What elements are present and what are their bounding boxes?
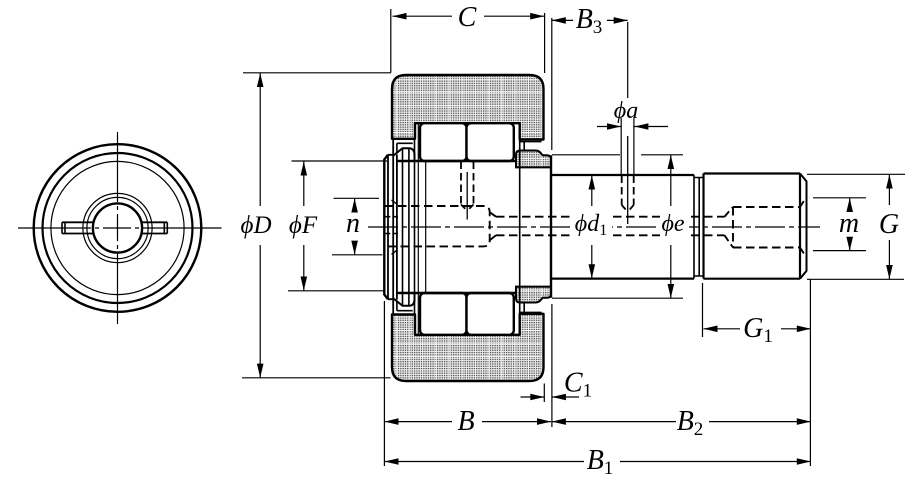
front view: outer ring inner edge circle [43, 153, 193, 303]
roller end face line left [417, 123, 419, 335]
svg-text:n: n [346, 208, 360, 239]
phi-F arrows [301, 162, 308, 176]
dim phi-e extension lines [552, 155, 683, 298]
front view: countersink outer circle [83, 193, 152, 262]
label background masks [571, 210, 689, 239]
svg-text:G: G [879, 209, 899, 240]
svg-text:B: B [457, 406, 474, 437]
dim phi-F extension lines [288, 161, 387, 291]
washer right face / phi-e hub face [550, 155, 552, 297]
roller chamfer line left [425, 161, 427, 293]
B arrows [385, 418, 399, 425]
radial hole centerline (center) [466, 172, 468, 220]
radial grease hole (right) hidden walls [622, 176, 634, 206]
m tapped hole hidden lines [733, 207, 800, 248]
dim phi-a extension lines [621, 118, 634, 174]
rib inner face line right [519, 123, 521, 335]
dim B1 line [385, 461, 811, 463]
dim G line [888, 175, 890, 280]
dim C1 arrow shafts [521, 396, 580, 398]
dim C1 extension lines [544, 304, 552, 402]
C1 arrows (outside pointing in) [530, 394, 544, 401]
front view: slot right end caps [164, 222, 167, 233]
dim G1 extension lines [703, 279, 811, 337]
outer ring section: top block [392, 75, 544, 140]
radial hole right cone [622, 205, 634, 212]
washer disc edge line a [402, 148, 404, 306]
front view: screwdriver slot bottom edge [62, 233, 167, 235]
front view: ring side recess circle [51, 161, 184, 294]
phi-a arrows (outside pointing in) [607, 123, 621, 130]
B1 arrows [385, 458, 399, 465]
flange top face [388, 155, 393, 299]
phi-e arrows [668, 155, 675, 169]
slot hidden lines (side view) [384, 217, 398, 234]
dim C line [393, 15, 545, 17]
thread end chamfer [800, 174, 807, 279]
dim m arrow shafts [849, 198, 851, 251]
svg-text:ϕF: ϕF [289, 212, 318, 239]
phi-d1 arrows [589, 176, 596, 190]
flange right face line [396, 155, 398, 300]
dim n arrow shafts [354, 199, 356, 255]
ring left face full line [392, 139, 394, 315]
washer disc edge line b [408, 148, 410, 306]
dim phi-D line [259, 73, 261, 378]
thread undercut groove [694, 175, 704, 279]
front view: center mark [112, 223, 123, 234]
radial hole centerline (right) [627, 136, 629, 224]
radial hole center cone [461, 205, 474, 211]
m hole entry chamfer [800, 197, 807, 258]
roller divider junction dots [464, 122, 469, 336]
seal lip dome bottom [394, 293, 415, 306]
thread section outline [704, 174, 801, 279]
dim C extension lines [391, 9, 545, 73]
dim B right extension line (B2/B1) [809, 335, 811, 466]
stud bore: counterbore hidden lines [385, 206, 490, 246]
B2 arrows [552, 418, 566, 425]
dim G extension lines [807, 174, 905, 279]
G1 arrows [704, 326, 718, 333]
outer ring section: bottom block [392, 314, 544, 381]
dim B2 line [552, 421, 811, 423]
svg-text:m: m [839, 208, 859, 239]
needle roller top-right [467, 123, 514, 161]
stud phi-d1 top line [551, 174, 694, 176]
dim B left extension line [383, 301, 385, 466]
m arrows [846, 198, 853, 212]
front view: countersink inner circle [87, 197, 148, 258]
front view: screwdriver slot top edge [62, 221, 167, 223]
dim phi-D extension lines [242, 73, 391, 378]
flange head left face [384, 155, 388, 299]
dim phi-e line [670, 155, 672, 298]
B3 arrows [552, 17, 566, 24]
dim B3 extension line right (hole centerline upper) [627, 22, 629, 98]
front view: outer ring OD circle [34, 144, 202, 312]
flange chamfer edge line [387, 155, 389, 299]
n arrows (inside pointing out) [351, 199, 358, 213]
countersink cone lines [392, 200, 398, 254]
arrowheads [257, 13, 893, 465]
svg-text:ϕa: ϕa [614, 98, 638, 124]
phi-D arrows [257, 73, 264, 87]
stud bore: counterbore to small hole chamfer [490, 212, 496, 240]
dim phi-a arrow shafts [597, 126, 668, 128]
side plate (right, bottom) hatched [516, 287, 551, 303]
dimension labels [241, 2, 900, 479]
dim phi-d1 line [591, 176, 593, 279]
G arrows [886, 175, 893, 189]
svg-text:ϕD: ϕD [241, 212, 272, 239]
stud raceway surface bottom [397, 292, 517, 294]
needle roller bottom-right [467, 293, 514, 335]
dim phi-F line [303, 162, 305, 291]
seal retainer step bottom [397, 301, 413, 311]
DIMENSIONS [242, 9, 905, 466]
stud phi-d1 bottom line [551, 278, 694, 280]
stud small through hole hidden lines [496, 217, 725, 236]
seal retainer step top [397, 143, 413, 153]
dim n extension lines [332, 198, 383, 255]
dim G1 line [704, 328, 811, 330]
dim B3 extension line left [551, 18, 553, 150]
svg-text:ϕe: ϕe [661, 211, 684, 237]
retainer lip right top [520, 142, 542, 151]
front view: vertical centerline [117, 132, 119, 324]
radial grease hole (center) hidden walls [461, 162, 474, 205]
rib inner face line left [414, 139, 416, 315]
stud raceway surface top [397, 160, 517, 162]
dim B / B2 shared extension line [551, 402, 553, 427]
retainer lip right bottom [520, 303, 542, 313]
seal lip dome top [394, 148, 415, 161]
front view: stud bore circle [93, 203, 142, 252]
C arrows [393, 13, 407, 20]
needle roller top-left [420, 123, 467, 161]
needle roller bottom-left [420, 293, 467, 335]
front view: horizontal centerline [18, 227, 222, 229]
front view: slot left end caps [62, 222, 65, 233]
main horizontal centerline [368, 226, 820, 228]
dim m extension lines [813, 198, 866, 251]
dim B3 line [552, 19, 628, 21]
dim B line [385, 421, 552, 423]
svg-text:C: C [458, 2, 477, 33]
side plate (right, top) hatched [516, 151, 551, 168]
small hole to m-thread cone [725, 207, 734, 248]
